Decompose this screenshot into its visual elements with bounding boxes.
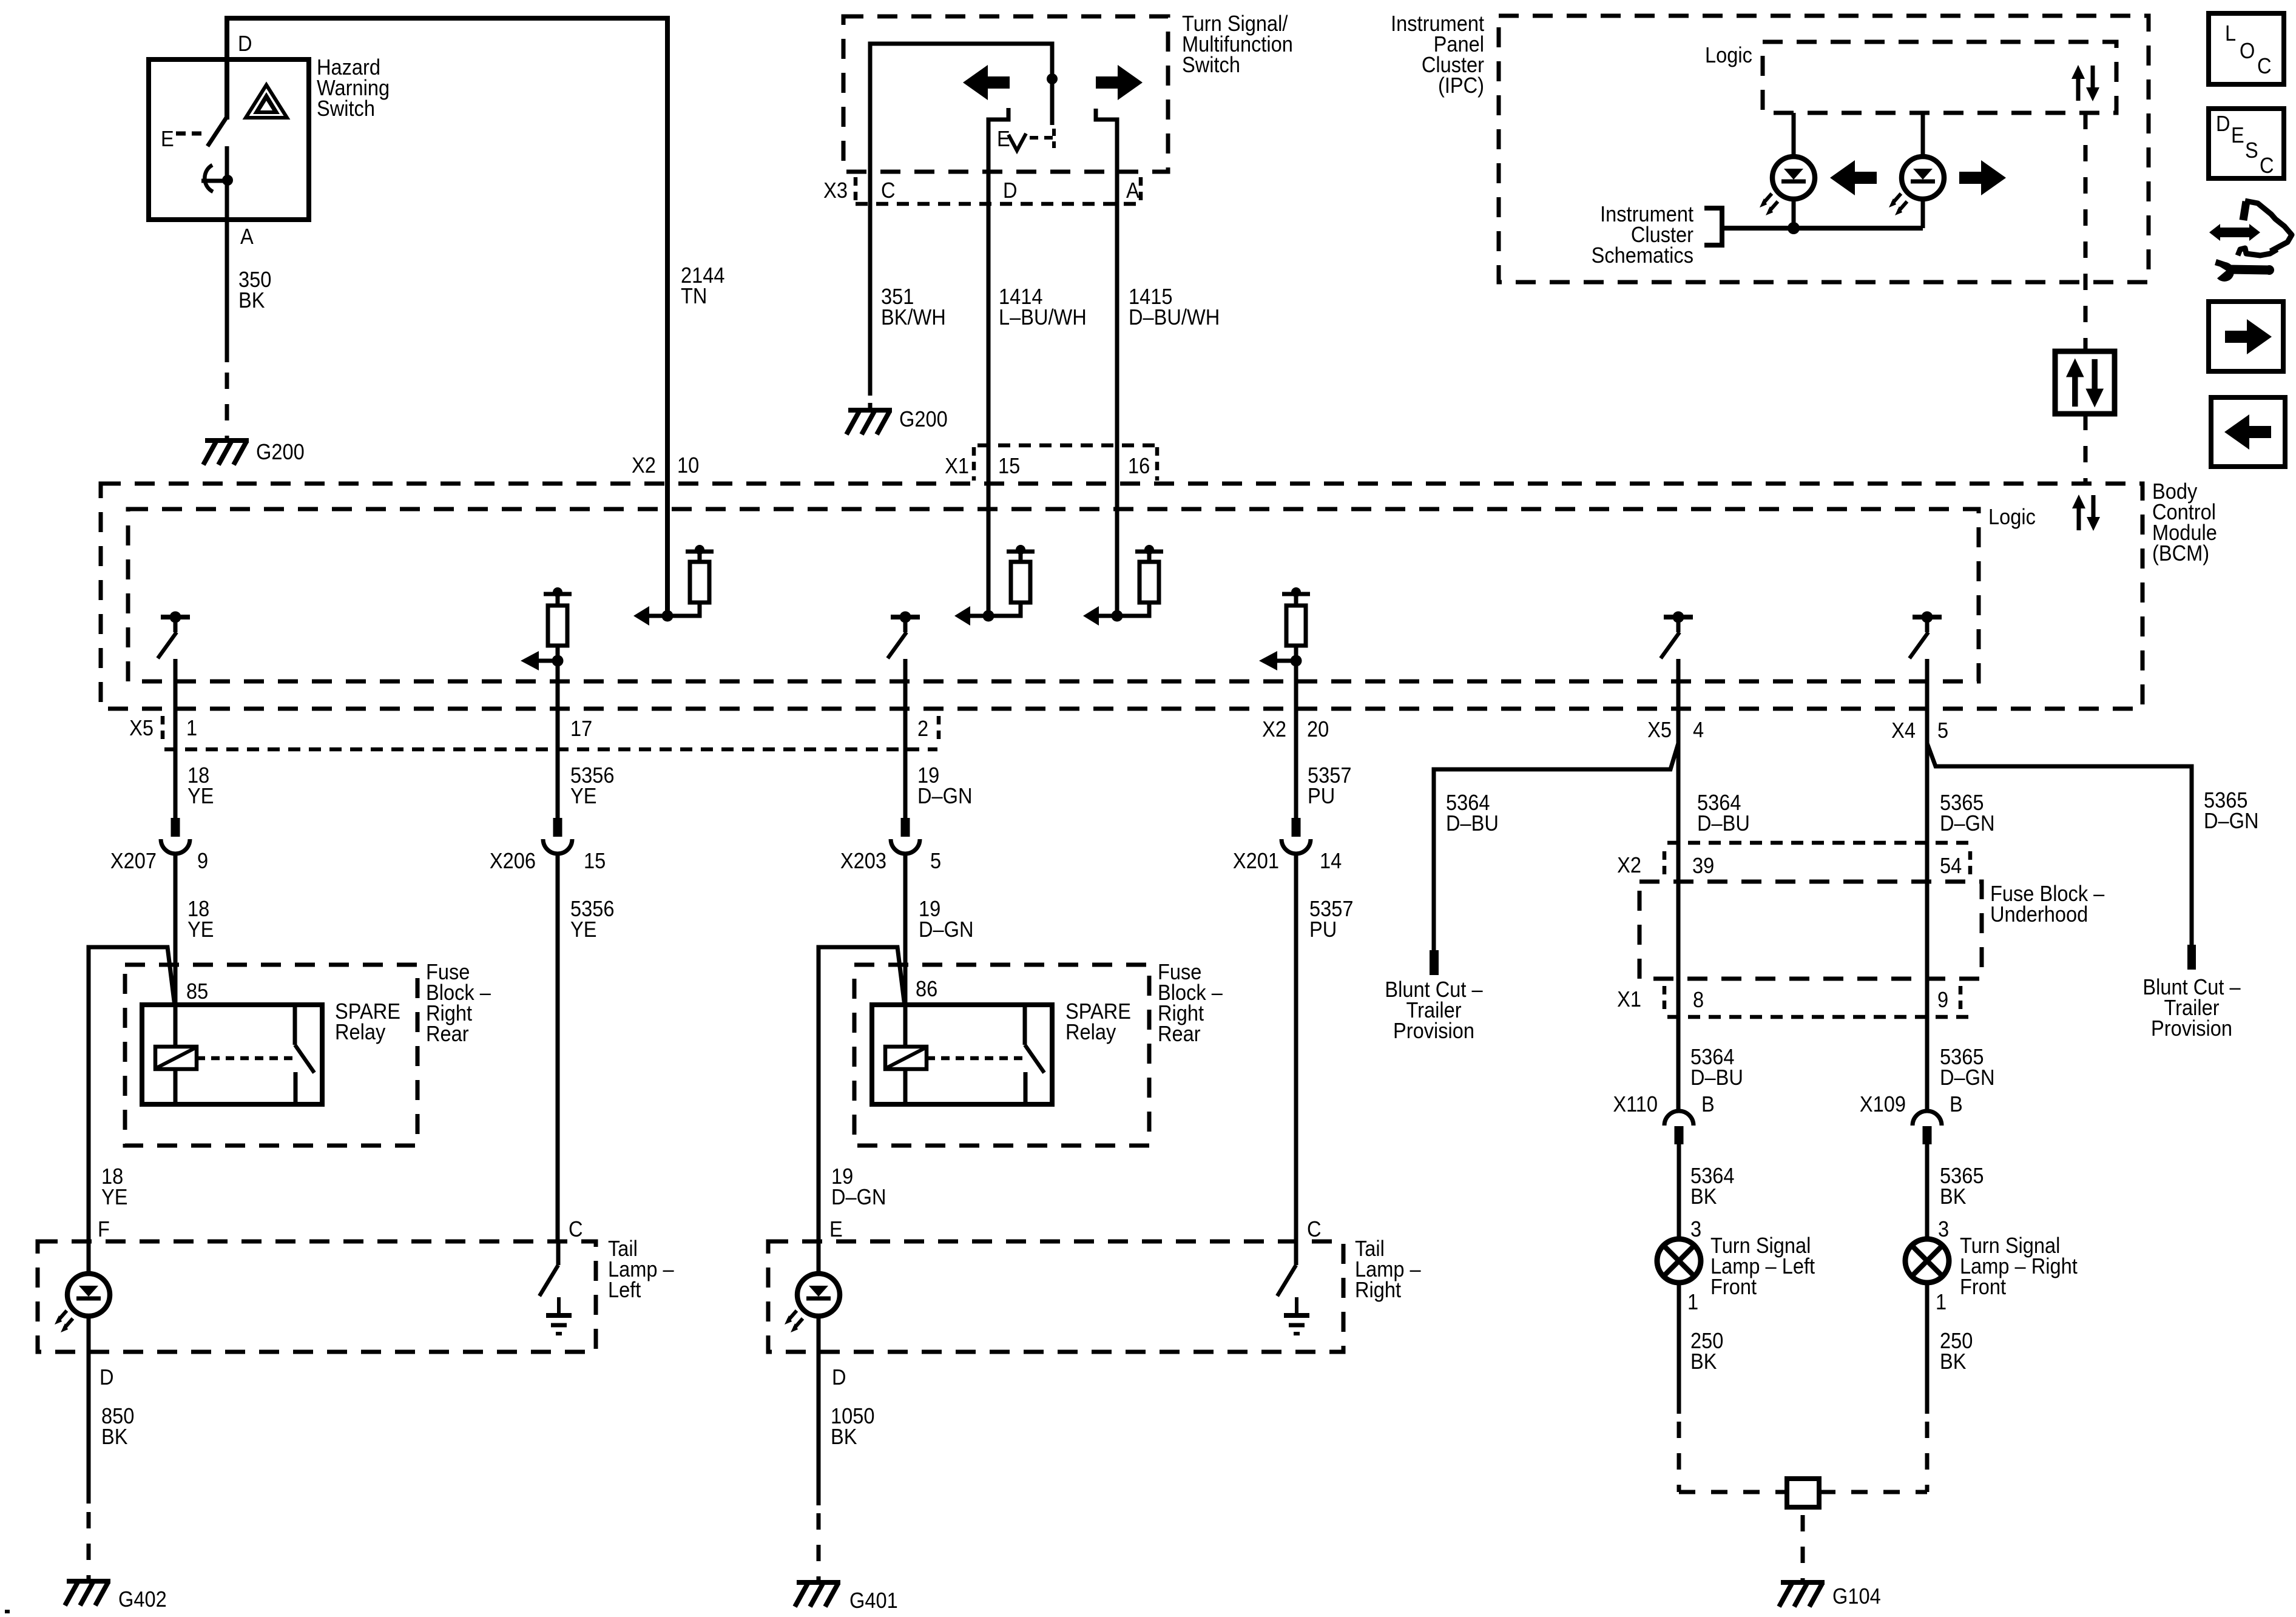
- wire 18 YE relay output to tail lamp F: [89, 947, 175, 1241]
- svg-text:X2: X2: [1617, 854, 1641, 878]
- junction dot indicator common: [1788, 222, 1800, 234]
- svg-text:C: C: [2260, 154, 2274, 178]
- connector X5 row bottom dotted line: [164, 748, 937, 752]
- svg-text:Relay: Relay: [1065, 1021, 1116, 1045]
- wire 18 YE (X5-1 to X207): [174, 659, 178, 818]
- svg-text:X5: X5: [1647, 718, 1672, 743]
- svg-text:TN: TN: [681, 285, 707, 309]
- body control module dashed box: [101, 484, 2142, 709]
- tail lamp left dashed box: [38, 1241, 596, 1352]
- wire 850 BK to G402: [87, 1352, 91, 1504]
- wire switch common: C leg up and across to moving contact: [870, 44, 1052, 204]
- wire 5365 D-GN (X4-5 down to fuse block): [1925, 659, 1930, 1111]
- svg-text:D–GN: D–GN: [831, 1186, 886, 1210]
- svg-text:8: 8: [1693, 988, 1704, 1013]
- svg-text:BK: BK: [1940, 1350, 1967, 1374]
- svg-text:16: 16: [1128, 454, 1150, 479]
- in-line connector X109 pin B: [1913, 1111, 1942, 1126]
- tail lamp right internal switch: [1294, 1241, 1298, 1265]
- fork to blunt cut left: [1434, 743, 1678, 950]
- LED tail lamp right: [797, 1274, 840, 1316]
- svg-text:Provision: Provision: [2151, 1017, 2232, 1041]
- svg-text:Left: Left: [608, 1278, 641, 1303]
- svg-text:BK: BK: [1690, 1350, 1717, 1374]
- left turn arrow icon: [963, 65, 1010, 100]
- blunt cut terminal right: [2187, 945, 2196, 970]
- svg-text:X203: X203: [840, 849, 886, 874]
- output switch X5-1: [161, 615, 190, 619]
- hazard warning triangle icon: [246, 85, 287, 118]
- svg-text:X109: X109: [1860, 1093, 1906, 1117]
- left arrow icon (IPC): [1830, 160, 1877, 195]
- svg-text:86: 86: [916, 977, 937, 1002]
- wire LED2 down: [1921, 199, 1925, 228]
- svg-text:1: 1: [1936, 1291, 1947, 1315]
- dashed wire to BCM logic: [2084, 414, 2088, 484]
- wire 5356 YE (X206 to tail lamp C): [556, 854, 560, 1241]
- actuator linkage check and dashes: [1008, 133, 1026, 150]
- in-line connector X201 pin 14: [1292, 818, 1301, 837]
- svg-text:(BCM): (BCM): [2152, 542, 2209, 566]
- svg-text:D–GN: D–GN: [1940, 1066, 1995, 1090]
- wire 1415 D-BU/WH (A to BCM X1-16): [1115, 204, 1119, 616]
- fuse block right rear dashed box (middle): [854, 965, 1149, 1146]
- svg-text:(IPC): (IPC): [1438, 74, 1484, 98]
- output switch X5-4: [1664, 615, 1693, 619]
- instrument cluster schematics bracket: [1704, 208, 1722, 245]
- tail lamp left internal switch: [556, 1241, 561, 1265]
- svg-text:3: 3: [1938, 1218, 1949, 1242]
- BCM logic dashed box: [128, 509, 1979, 681]
- svg-text:Logic: Logic: [1988, 505, 2036, 530]
- blunt cut terminal left: [1430, 950, 1439, 975]
- page artifact dot bottom-left: [5, 1610, 10, 1613]
- wire 5364 D-BU (X5-4 down to fuse block): [1676, 659, 1681, 1111]
- svg-text:Front: Front: [1960, 1275, 2006, 1300]
- wire 1414 L-BU/WH (D to BCM X1-15): [987, 204, 991, 616]
- svg-text:L: L: [2225, 22, 2236, 46]
- svg-text:Rear: Rear: [426, 1022, 469, 1047]
- fuse block underhood dashed box: [1639, 882, 1982, 979]
- svg-text:D–GN: D–GN: [1940, 812, 1995, 836]
- svg-text:PU: PU: [1308, 785, 1335, 809]
- svg-text:G402: G402: [118, 1588, 167, 1612]
- svg-text:X1: X1: [945, 454, 969, 479]
- svg-text:Switch: Switch: [317, 97, 375, 121]
- svg-text:X110: X110: [1613, 1093, 1658, 1117]
- wire 250 BK (right lamp to splice): [1925, 1283, 1930, 1414]
- svg-text:Underhood: Underhood: [1990, 903, 2088, 927]
- input driver X2-10: [648, 614, 667, 618]
- hazard switch lower contact with hook: [225, 146, 229, 220]
- svg-text:YE: YE: [101, 1186, 127, 1210]
- svg-text:S: S: [2245, 139, 2258, 163]
- LED right turn indicator: [1902, 157, 1944, 199]
- svg-text:F: F: [98, 1218, 110, 1242]
- svg-text:A: A: [1126, 179, 1140, 203]
- input driver X1-16: [1098, 614, 1117, 618]
- svg-text:D–GN: D–GN: [919, 918, 974, 942]
- fork to blunt cut right: [1927, 743, 2192, 945]
- output switch 2: [891, 615, 920, 619]
- in-line connector X207 pin 9: [171, 818, 180, 837]
- wire 19 D-GN relay output to tail lamp E: [819, 947, 905, 1241]
- svg-text:X207: X207: [110, 849, 157, 874]
- svg-text:G104: G104: [1832, 1585, 1881, 1609]
- svg-text:15: 15: [584, 849, 606, 874]
- svg-text:17: 17: [570, 717, 592, 741]
- serial data up/down box: [2055, 351, 2115, 414]
- ground splice box: [1787, 1479, 1819, 1507]
- wire 5357 PU (X201 to tail lamp C): [1294, 854, 1298, 1241]
- svg-text:BK: BK: [238, 289, 265, 313]
- svg-text:Logic: Logic: [1705, 44, 1752, 68]
- LOC icon box: [2209, 13, 2284, 84]
- svg-text:20: 20: [1307, 718, 1329, 742]
- right turn arrow icon: [1096, 65, 1143, 100]
- svg-text:L–BU/WH: L–BU/WH: [999, 306, 1087, 330]
- svg-text:E: E: [997, 127, 1010, 152]
- svg-text:YE: YE: [570, 918, 596, 942]
- dashed wire IPC logic to BCM: [2084, 113, 2088, 351]
- SPARE relay (left): [142, 1005, 322, 1104]
- svg-text:YE: YE: [187, 918, 214, 942]
- svg-text:C: C: [2257, 55, 2272, 79]
- svg-text:Switch: Switch: [1182, 53, 1240, 78]
- in-line connector X203 pin 5: [901, 818, 910, 837]
- svg-text:PU: PU: [1309, 918, 1337, 942]
- svg-text:5: 5: [1937, 719, 1948, 743]
- up/down arrows in IPC logic: [2076, 77, 2081, 101]
- left arrow icon box: [2211, 397, 2285, 467]
- svg-text:D–BU: D–BU: [1697, 812, 1750, 836]
- wire 351 BK/WH to G200: [868, 204, 873, 382]
- svg-text:Front: Front: [1710, 1275, 1757, 1300]
- wire 5356 YE (17 to X206): [556, 661, 560, 818]
- svg-text:X4: X4: [1891, 719, 1916, 743]
- tail lamp right dashed box: [768, 1241, 1343, 1352]
- fixed contact for A (right turn): [1096, 109, 1117, 204]
- dashed wire splice to G104: [1801, 1515, 1805, 1581]
- svg-text:1: 1: [186, 717, 197, 741]
- svg-text:D: D: [832, 1366, 846, 1390]
- wire 1050 BK to G401: [817, 1352, 821, 1505]
- svg-text:D: D: [238, 32, 252, 56]
- svg-text:G200: G200: [899, 408, 948, 432]
- output driver 17: [553, 587, 562, 597]
- svg-text:YE: YE: [187, 785, 214, 809]
- svg-text:D: D: [100, 1366, 114, 1390]
- ground G401: [797, 1580, 840, 1585]
- wire 5365 BK (X109 to lamp): [1925, 1144, 1930, 1239]
- ground G200 (hazard): [205, 438, 249, 443]
- turn signal/multifunction switch dashed box: [843, 16, 1168, 172]
- svg-text:2: 2: [917, 717, 928, 741]
- svg-text:Schematics: Schematics: [1592, 244, 1693, 268]
- svg-text:5: 5: [930, 849, 941, 874]
- wire 5364 BK (X110 to lamp): [1677, 1144, 1681, 1239]
- connector X1 row top: [977, 444, 1157, 448]
- in-line connector X110 pin B: [1664, 1111, 1693, 1126]
- turn signal lamp right front: [1905, 1239, 1949, 1283]
- svg-text:C: C: [881, 179, 896, 203]
- wire LED to junction: [1792, 199, 1796, 228]
- svg-text:D–BU/WH: D–BU/WH: [1129, 306, 1220, 330]
- svg-text:D–GN: D–GN: [917, 785, 973, 809]
- right arrow icon (IPC): [1959, 160, 2006, 195]
- svg-text:G401: G401: [849, 1589, 898, 1613]
- svg-text:X3: X3: [823, 179, 848, 203]
- in-line connector X206 pin 15: [553, 818, 562, 837]
- svg-text:4: 4: [1693, 718, 1704, 743]
- wire left indicator feed: [1792, 113, 1796, 157]
- svg-text:85: 85: [186, 980, 208, 1004]
- svg-text:B: B: [1950, 1093, 1963, 1117]
- svg-text:BK: BK: [1940, 1185, 1967, 1209]
- svg-text:54: 54: [1940, 854, 1962, 879]
- svg-text:E: E: [2231, 124, 2244, 148]
- ground G200 (turn signal switch): [848, 408, 892, 413]
- svg-text:B: B: [1701, 1093, 1715, 1117]
- ground symbol inside tail lamp right: [1295, 1297, 1298, 1315]
- fixed contact for D (left turn): [988, 108, 1008, 204]
- LED tail lamp left: [67, 1274, 110, 1316]
- svg-text:39: 39: [1692, 854, 1714, 879]
- svg-text:15: 15: [998, 454, 1020, 479]
- svg-text:10: 10: [677, 454, 699, 478]
- junction dot on moving contact feed: [1047, 73, 1058, 84]
- svg-text:14: 14: [1320, 849, 1342, 874]
- wire right indicator feed: [1921, 113, 1925, 157]
- DESC icon box: [2209, 109, 2284, 178]
- wire 350 BK hazard A to G200: [225, 220, 229, 362]
- wire 250 BK (left lamp to splice): [1677, 1283, 1681, 1414]
- ground G104: [1781, 1580, 1825, 1585]
- wrench icon: [2215, 262, 2234, 282]
- output switch X4-5: [1913, 615, 1942, 619]
- dashed wires into ground splice: [1679, 1490, 1787, 1494]
- svg-text:BK: BK: [831, 1425, 857, 1450]
- svg-text:X2: X2: [1262, 718, 1286, 742]
- svg-text:9: 9: [197, 849, 208, 874]
- svg-text:D–BU: D–BU: [1690, 1066, 1743, 1090]
- svg-text:X5: X5: [129, 717, 154, 741]
- svg-text:9: 9: [1937, 988, 1948, 1013]
- svg-text:Rear: Rear: [1158, 1022, 1201, 1047]
- wire 19 D-GN (X203 to relay 86): [903, 854, 908, 1047]
- wire 18 YE (X207 to relay 85): [174, 854, 178, 1047]
- input driver X1-15: [969, 614, 988, 618]
- svg-text:G200: G200: [256, 441, 305, 465]
- turn signal lamp left front: [1657, 1239, 1701, 1283]
- svg-text:D–BU: D–BU: [1446, 812, 1499, 836]
- svg-text:X1: X1: [1617, 988, 1641, 1012]
- svg-text:1: 1: [1687, 1291, 1698, 1315]
- svg-text:X206: X206: [490, 849, 536, 874]
- connector X3 row dotted line: [856, 202, 1141, 206]
- svg-text:E: E: [829, 1218, 843, 1242]
- IPC logic dashed box: [1763, 42, 2116, 113]
- svg-text:C: C: [569, 1218, 583, 1242]
- output driver 20: [1291, 587, 1301, 597]
- svg-text:D: D: [1003, 179, 1018, 203]
- LED left turn indicator: [1772, 157, 1815, 199]
- svg-text:Provision: Provision: [1393, 1019, 1474, 1044]
- svg-text:O: O: [2240, 39, 2255, 64]
- connector X2 row (fuse block underhood): [1667, 841, 1972, 845]
- fuse block right rear dashed box (left): [125, 965, 417, 1146]
- svg-text:D–GN: D–GN: [2204, 809, 2259, 834]
- wire hazard switch pin D to BCM X2-10 (circuit 2144 TN): [227, 18, 667, 616]
- wire 19 D-GN (2 to X203): [903, 659, 908, 818]
- instrument panel cluster dashed box: [1499, 16, 2149, 282]
- svg-text:C: C: [1307, 1218, 1322, 1242]
- wire indicator common return: [1724, 226, 1923, 231]
- svg-text:X2: X2: [632, 454, 656, 478]
- linkage dashes E to blade: [176, 132, 203, 136]
- svg-text:BK/WH: BK/WH: [881, 306, 946, 330]
- svg-text:Right: Right: [1355, 1278, 1401, 1303]
- svg-text:Relay: Relay: [335, 1021, 386, 1045]
- ground symbol inside tail lamp left: [557, 1297, 561, 1315]
- ground G402: [67, 1579, 110, 1584]
- svg-text:3: 3: [1690, 1218, 1701, 1242]
- svg-text:BK: BK: [101, 1425, 128, 1450]
- hazard warning switch S4 box: [149, 59, 309, 220]
- svg-text:D: D: [2216, 112, 2230, 137]
- SPARE relay (middle): [872, 1005, 1052, 1104]
- svg-text:YE: YE: [570, 785, 596, 809]
- svg-text:E: E: [161, 127, 174, 152]
- svg-text:BK: BK: [1690, 1185, 1717, 1209]
- switch blade (hazard): [208, 118, 226, 146]
- svg-text:X201: X201: [1233, 849, 1279, 874]
- right arrow icon box: [2209, 302, 2283, 371]
- wire 5357 PU (20 to X201): [1294, 661, 1298, 818]
- connector X1 row (fuse block underhood): [1667, 1015, 1972, 1019]
- hand with double arrow and wrench icon: [2209, 224, 2260, 241]
- up/down arrows BCM logic: [2077, 507, 2081, 530]
- junction dot hazard contact: [222, 175, 233, 186]
- svg-text:A: A: [240, 225, 254, 249]
